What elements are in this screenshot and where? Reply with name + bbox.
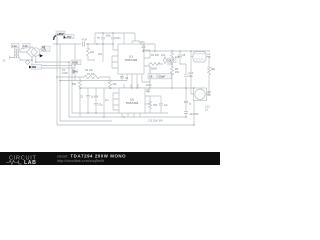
svg-text:R3 22k: R3 22k: [85, 69, 94, 72]
svg-text:circuit : TDA7294 200W MONO: circuit : TDA7294 200W MONO: [57, 153, 126, 158]
svg-text:4148: 4148: [62, 72, 68, 75]
svg-text:.7u: .7u: [208, 56, 212, 59]
svg-text:22u: 22u: [98, 53, 103, 56]
svg-text:1u: 1u: [205, 109, 208, 112]
svg-text:47u: 47u: [141, 41, 146, 44]
svg-text:8R: 8R: [208, 94, 211, 97]
svg-text:100n: 100n: [146, 84, 152, 87]
svg-text:C6: C6: [149, 75, 153, 79]
svg-text:V2: V2: [3, 61, 7, 63]
svg-text:100n: 100n: [106, 35, 112, 38]
svg-text:100n: 100n: [115, 37, 121, 40]
svg-text:22u 50V: 22u 50V: [190, 113, 200, 116]
svg-text:560: 560: [72, 83, 77, 86]
svg-text:1 V: 1 V: [42, 48, 46, 52]
svg-text:LAB: LAB: [24, 160, 36, 165]
svg-text:1m: 1m: [105, 99, 108, 102]
svg-text:20k: 20k: [175, 71, 180, 74]
svg-text:http://circuitlab.com/cuq5m5t: http://circuitlab.com/cuq5m5t: [57, 159, 104, 163]
svg-text:560: 560: [153, 104, 158, 107]
svg-text:C8: C8: [182, 54, 186, 57]
svg-text:22u: 22u: [161, 54, 166, 57]
svg-text:TDA7294: TDA7294: [126, 101, 139, 105]
svg-text:R4 680: R4 680: [151, 54, 160, 57]
svg-text:C4: C4: [125, 77, 129, 80]
svg-text:20k: 20k: [113, 83, 118, 86]
svg-text:22u: 22u: [189, 75, 194, 78]
svg-text:L1a: L1a: [12, 44, 17, 48]
svg-text:10R: 10R: [211, 68, 216, 71]
svg-text:TDA7294: TDA7294: [125, 58, 138, 62]
svg-text:680R: 680R: [151, 68, 157, 71]
svg-text:C10 22uF 50V: C10 22uF 50V: [148, 121, 163, 123]
svg-text:R7 20k: R7 20k: [87, 73, 96, 76]
svg-text:22u: 22u: [99, 104, 104, 107]
svg-text:GND: GND: [72, 60, 78, 64]
svg-text:22u: 22u: [164, 105, 169, 107]
svg-text:10R: 10R: [175, 56, 180, 59]
svg-text:IN1: IN1: [32, 65, 37, 69]
svg-text:1u 63V: 1u 63V: [91, 96, 99, 99]
svg-text:1m: 1m: [97, 37, 100, 40]
svg-text:+35V: +35V: [57, 32, 64, 36]
svg-text:OUT: OUT: [169, 58, 175, 62]
svg-text:-35V: -35V: [66, 35, 72, 39]
svg-text:C5: C5: [80, 96, 84, 99]
svg-text:L1b: L1b: [23, 44, 28, 48]
svg-text:22k: 22k: [90, 51, 95, 54]
svg-text:22uF: 22uF: [159, 75, 165, 79]
svg-text:1u: 1u: [189, 103, 192, 106]
svg-text:47uF: 47uF: [82, 39, 88, 42]
